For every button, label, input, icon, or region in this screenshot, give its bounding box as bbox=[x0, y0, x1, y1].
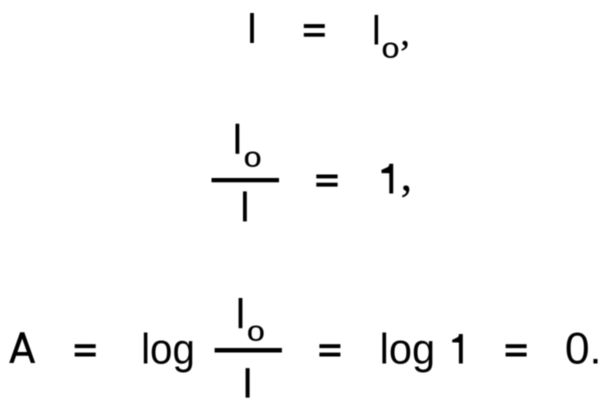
svg-text:O: O bbox=[245, 147, 261, 172]
eq2 equals bbox=[316, 175, 337, 179]
eq3 numerator I bbox=[239, 298, 243, 328]
eq3 denominator I bbox=[246, 368, 250, 398]
eq1 I left bbox=[250, 13, 254, 43]
eq1 equals bbox=[304, 24, 325, 28]
svg-text:log: log bbox=[380, 326, 436, 374]
svg-text:.: . bbox=[590, 326, 602, 374]
eq3 equals 3 bbox=[506, 344, 527, 348]
eq3 A bbox=[9, 332, 35, 363]
svg-text:O: O bbox=[382, 38, 398, 63]
eq3 equals 2 bbox=[319, 344, 340, 348]
eq1 I right bbox=[375, 15, 379, 45]
eq3 equals 1 bbox=[75, 344, 96, 348]
eq3 fraction bar bbox=[215, 348, 282, 353]
eq2 numerator I bbox=[236, 124, 240, 154]
svg-text:log: log bbox=[141, 326, 195, 374]
svg-text:0: 0 bbox=[565, 325, 590, 374]
eq2 denominator I bbox=[243, 191, 247, 221]
svg-text:,: , bbox=[401, 150, 412, 200]
svg-text:,: , bbox=[401, 13, 410, 54]
eq2 fraction bar bbox=[212, 178, 280, 182]
eq2 digit 1 bbox=[382, 164, 394, 194]
eq3 digit 1 bbox=[452, 334, 463, 364]
svg-text:O: O bbox=[248, 321, 264, 346]
